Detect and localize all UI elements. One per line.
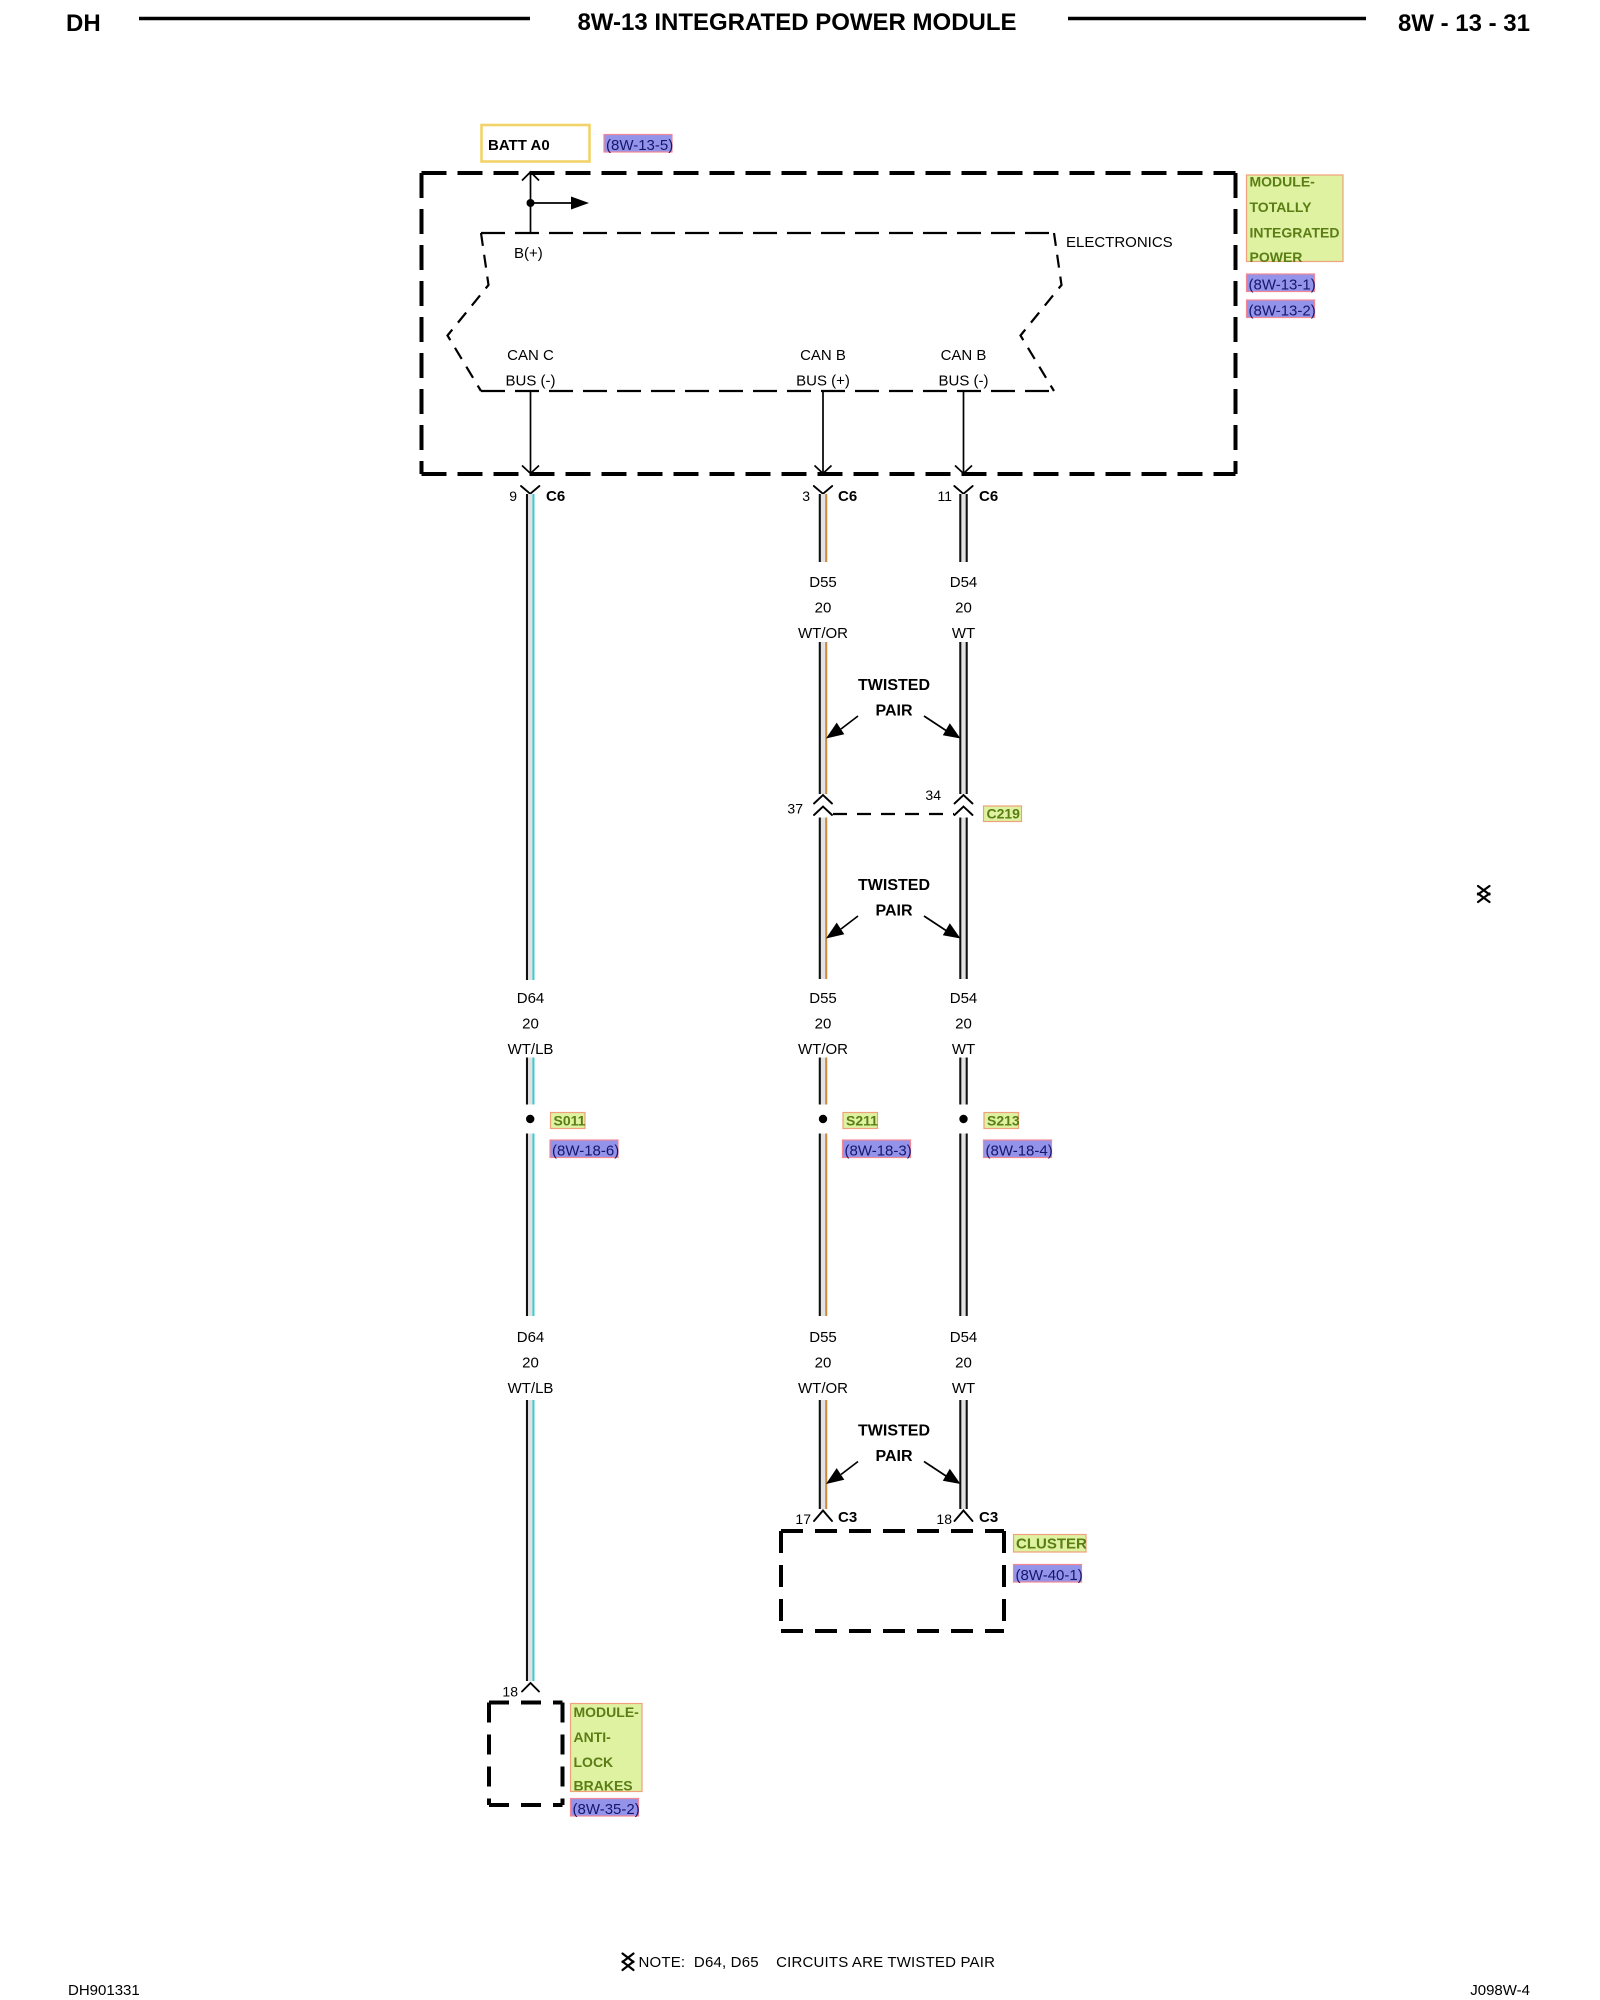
splice S213 xyxy=(959,1113,1020,1129)
wire D54 WT segment 1 xyxy=(960,494,966,562)
svg-text:8W - 13 - 31: 8W - 13 - 31 xyxy=(1398,10,1530,37)
svg-text:20: 20 xyxy=(522,1015,539,1032)
wire label D54 20 WT third row xyxy=(950,1329,978,1397)
svg-text:DH901331: DH901331 xyxy=(68,1982,140,1999)
wire CAN B(-) inside module with down arrow xyxy=(955,391,972,474)
svg-text:20: 20 xyxy=(815,599,832,616)
svg-text:INTEGRATED: INTEGRATED xyxy=(1250,224,1340,240)
ABS module outline (dashed) xyxy=(489,1703,563,1806)
wire label D54 20 WT first xyxy=(950,574,978,642)
svg-text:3: 3 xyxy=(802,488,810,504)
svg-text:D64: D64 xyxy=(517,1329,545,1346)
svg-text:POWER: POWER xyxy=(1250,249,1303,265)
wire D55 WT/OR segment 6 xyxy=(820,1400,826,1509)
svg-text:(8W-13-1): (8W-13-1) xyxy=(1249,277,1316,294)
wire label D54 20 WT second row xyxy=(950,990,978,1058)
wire D55 WT/OR segment 4 xyxy=(820,1058,826,1105)
connector label C219 xyxy=(984,806,1022,822)
svg-text:TOTALLY: TOTALLY xyxy=(1250,199,1313,215)
svg-text:D55: D55 xyxy=(809,574,837,591)
svg-text:ELECTRONICS: ELECTRONICS xyxy=(1066,234,1173,251)
svg-text:(8W-18-3): (8W-18-3) xyxy=(845,1143,912,1160)
header rule right xyxy=(1068,17,1366,20)
reference label (8W-35-2) xyxy=(571,1799,640,1819)
svg-text:D54: D54 xyxy=(950,990,978,1007)
svg-text:MODULE-: MODULE- xyxy=(574,1704,640,1720)
svg-text:20: 20 xyxy=(522,1354,539,1371)
module TIPM outline (dashed) xyxy=(422,173,1236,474)
svg-text:8W-13 INTEGRATED POWER MODULE: 8W-13 INTEGRATED POWER MODULE xyxy=(577,9,1016,36)
splice S211 xyxy=(819,1113,878,1129)
svg-text:S211: S211 xyxy=(846,1113,878,1129)
junction node on B(+) riser xyxy=(527,199,535,207)
svg-text:BUS (-): BUS (-) xyxy=(939,373,989,390)
svg-text:LOCK: LOCK xyxy=(574,1754,614,1770)
svg-text:D55: D55 xyxy=(809,1329,837,1346)
svg-text:37: 37 xyxy=(787,801,803,817)
svg-text:20: 20 xyxy=(955,1015,972,1032)
module name label MODULE-ANTI-LOCK BRAKES xyxy=(571,1704,643,1794)
svg-text:WT: WT xyxy=(952,1380,975,1397)
module name label CLUSTER xyxy=(1014,1535,1088,1553)
svg-text:18: 18 xyxy=(502,1684,518,1700)
svg-text:(8W-13-2): (8W-13-2) xyxy=(1249,303,1316,320)
svg-text:C3: C3 xyxy=(838,1509,857,1526)
module name label MODULE-TOTALLY INTEGRATED POWER xyxy=(1247,174,1344,266)
svg-text:CAN B: CAN B xyxy=(800,347,846,364)
svg-text:PAIR: PAIR xyxy=(875,902,912,919)
twisted pair callout 2 xyxy=(826,877,961,939)
cluster outline (dashed) xyxy=(781,1531,1004,1631)
wire D55 WT/OR segment 1 xyxy=(820,494,826,562)
svg-text:17: 17 xyxy=(795,1511,811,1527)
wire D64 WT/LB segment 2 xyxy=(527,1134,533,1317)
svg-text:18: 18 xyxy=(936,1511,952,1527)
connector C219 dashed link xyxy=(833,813,954,815)
svg-text:NOTE: D64, D65 CIRCUITS AR: NOTE: D64, D65 CIRCUITS ARE TWISTED PAIR xyxy=(639,1954,996,1971)
connector C6 pin 11 xyxy=(937,486,998,505)
svg-text:DH: DH xyxy=(66,10,101,37)
svg-text:B(+): B(+) xyxy=(514,245,543,262)
svg-text:WT/OR: WT/OR xyxy=(798,1041,848,1058)
connector C6 pin 9 xyxy=(509,486,565,505)
svg-text:S213: S213 xyxy=(987,1113,1020,1129)
note symbol right margin xyxy=(1478,886,1490,902)
reference label (8W-13-2) xyxy=(1247,300,1316,320)
reference label (8W-40-1) xyxy=(1014,1565,1083,1585)
wire D64 WT/LB segment 1b xyxy=(527,1058,533,1105)
svg-text:CAN C: CAN C xyxy=(507,347,554,364)
branch wire with arrow right xyxy=(531,202,572,204)
svg-text:WT/OR: WT/OR xyxy=(798,1380,848,1397)
svg-text:PAIR: PAIR xyxy=(875,702,912,719)
svg-text:(8W-13-5): (8W-13-5) xyxy=(606,137,673,154)
in-line connector C219 pin 34 chevrons xyxy=(925,787,972,815)
svg-text:C6: C6 xyxy=(546,488,565,505)
svg-text:CAN B: CAN B xyxy=(941,347,987,364)
header rule left xyxy=(139,17,530,20)
connector C6 pin 3 xyxy=(802,486,857,505)
svg-text:C6: C6 xyxy=(979,488,998,505)
svg-text:11: 11 xyxy=(937,488,952,504)
svg-text:20: 20 xyxy=(815,1015,832,1032)
wire label D55 20 WT/OR first xyxy=(798,574,848,642)
svg-text:D55: D55 xyxy=(809,990,837,1007)
battery feed box BATT A0 xyxy=(482,125,590,162)
reference label (8W-18-4) xyxy=(984,1140,1053,1160)
svg-text:J098W-4: J098W-4 xyxy=(1470,1982,1530,1999)
svg-text:WT: WT xyxy=(952,1041,975,1058)
connector C3 pin 17 xyxy=(795,1509,857,1527)
arrowhead up into BATT A0 feed xyxy=(522,172,539,181)
wire D54 WT segment 6 xyxy=(960,1400,966,1509)
wire D54 WT segment 5 xyxy=(960,1134,966,1317)
wire D55 WT/OR segment 3 xyxy=(820,818,826,980)
svg-text:C219: C219 xyxy=(987,806,1021,822)
svg-text:BRAKES: BRAKES xyxy=(574,1778,633,1794)
svg-text:BATT A0: BATT A0 xyxy=(488,137,550,154)
wire label D64 20 WT/LB second row xyxy=(508,990,554,1058)
svg-text:20: 20 xyxy=(955,1354,972,1371)
svg-text:BUS (-): BUS (-) xyxy=(506,373,556,390)
splice S011 xyxy=(526,1113,586,1129)
svg-text:34: 34 xyxy=(925,787,941,803)
svg-text:ANTI-: ANTI- xyxy=(574,1729,612,1745)
svg-text:C6: C6 xyxy=(838,488,857,505)
svg-text:D64: D64 xyxy=(517,990,545,1007)
wire D64 WT/LB segment 1 xyxy=(527,494,533,980)
svg-text:C3: C3 xyxy=(979,1509,998,1526)
wire label D55 20 WT/OR third row xyxy=(798,1329,848,1397)
twisted pair callout 3 xyxy=(826,1423,961,1485)
wire D64 WT/LB segment 3 xyxy=(527,1400,533,1681)
svg-text:WT/OR: WT/OR xyxy=(798,625,848,642)
connector pin 18 at ABS module xyxy=(502,1683,539,1700)
svg-text:WT/LB: WT/LB xyxy=(508,1380,554,1397)
wire D55 WT/OR segment 5 xyxy=(820,1134,826,1317)
svg-text:CLUSTER: CLUSTER xyxy=(1016,1536,1087,1553)
wire B(+) riser from TIPM to BATT A0 xyxy=(530,174,532,233)
wire label D55 20 WT/OR second row xyxy=(798,990,848,1058)
svg-text:PAIR: PAIR xyxy=(875,1448,912,1465)
reference label (8W-18-3) xyxy=(843,1140,912,1160)
connector C3 pin 18 xyxy=(936,1509,998,1527)
svg-text:WT/LB: WT/LB xyxy=(508,1041,554,1058)
wire D55 WT/OR segment 2 xyxy=(820,642,826,794)
reference label (8W-13-5) xyxy=(604,135,673,155)
svg-text:20: 20 xyxy=(955,599,972,616)
wire D54 WT segment 3 xyxy=(960,818,966,980)
reference label (8W-13-1) xyxy=(1247,274,1316,294)
wire CAN C inside module with down arrow xyxy=(522,391,539,474)
electronics block outline (dashed) xyxy=(448,233,1062,391)
svg-text:(8W-40-1): (8W-40-1) xyxy=(1016,1567,1083,1584)
reference label (8W-18-6) xyxy=(550,1140,619,1160)
svg-text:TWISTED: TWISTED xyxy=(858,877,930,894)
wire label D64 20 WT/LB third row xyxy=(508,1329,554,1397)
wire D54 WT segment 2 xyxy=(960,642,966,794)
svg-text:D54: D54 xyxy=(950,574,978,591)
svg-text:MODULE-: MODULE- xyxy=(1250,174,1316,190)
svg-text:WT: WT xyxy=(952,625,975,642)
svg-text:TWISTED: TWISTED xyxy=(858,677,930,694)
svg-text:(8W-18-4): (8W-18-4) xyxy=(986,1143,1053,1160)
svg-text:S011: S011 xyxy=(554,1113,586,1129)
svg-text:(8W-18-6): (8W-18-6) xyxy=(552,1143,619,1160)
wire CAN B(+) inside module with down arrow xyxy=(815,391,832,474)
svg-text:D54: D54 xyxy=(950,1329,978,1346)
svg-text:BUS (+): BUS (+) xyxy=(796,373,850,390)
in-line connector C219 pin 37 chevrons xyxy=(787,795,832,817)
wire D54 WT segment 4 xyxy=(960,1058,966,1105)
svg-text:TWISTED: TWISTED xyxy=(858,1423,930,1440)
svg-text:(8W-35-2): (8W-35-2) xyxy=(573,1801,640,1818)
svg-text:20: 20 xyxy=(815,1354,832,1371)
twisted pair callout 1 xyxy=(826,677,961,739)
svg-text:9: 9 xyxy=(509,488,517,504)
note symbol footer xyxy=(623,1954,634,1971)
